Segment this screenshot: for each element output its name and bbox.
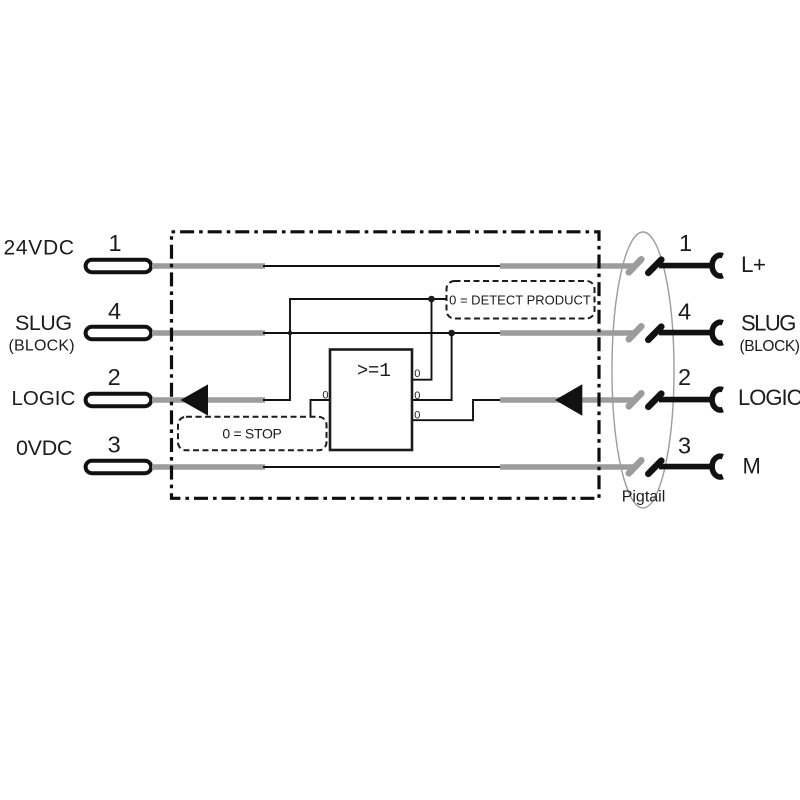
connector contact gray slash pin 1 [629, 259, 642, 272]
svg-text:L+: L+ [741, 252, 766, 277]
connector contact gray slash pin 3 [629, 460, 642, 473]
wire LOGIC left stub [263, 299, 447, 400]
gray wire 0VDC left [152, 464, 265, 470]
gray wire LOGIC left [152, 397, 265, 403]
annotation box 0 = STOP [178, 417, 327, 451]
junction dot detect node [428, 296, 435, 303]
connector contact black slash pin 3 [648, 461, 661, 474]
svg-text:>=1: >=1 [357, 360, 391, 382]
gray wire M right [500, 464, 634, 470]
black wire L+ [659, 263, 712, 269]
terminal pad pin 1 [86, 260, 152, 272]
svg-text:1: 1 [679, 230, 692, 256]
svg-text:LOGIC: LOGIC [12, 387, 76, 410]
svg-text:0: 0 [414, 368, 420, 380]
wire 0VDC row [263, 466, 501, 468]
svg-text:0 = DETECT PRODUCT: 0 = DETECT PRODUCT [449, 293, 591, 308]
wire 24VDC row [263, 265, 501, 267]
svg-text:0: 0 [414, 410, 420, 422]
connector contact black slash pin 4 [648, 327, 661, 340]
svg-text:M: M [743, 454, 761, 479]
svg-text:0 = STOP: 0 = STOP [222, 425, 281, 441]
svg-text:0VDC: 0VDC [16, 436, 72, 460]
svg-text:SLUG: SLUG [741, 311, 795, 336]
pigtail cable ellipse [612, 232, 674, 508]
connector contact black slash pin 1 [648, 260, 661, 273]
socket hook SLUG [712, 322, 723, 343]
connector contact gray slash pin 2 [629, 393, 642, 406]
wire detect branch to gate input A [412, 299, 432, 380]
svg-text:0: 0 [322, 389, 328, 401]
arrowhead LOGIC right [555, 384, 582, 416]
wire gate input C from LOGIC right [412, 400, 501, 420]
wire SLUG row [263, 332, 501, 334]
svg-text:Pigtail: Pigtail [622, 489, 666, 506]
gray wire SLUG left [152, 330, 265, 336]
black wire SLUG [659, 330, 712, 336]
wire gate input B [412, 333, 452, 400]
OR gate U1 [330, 350, 412, 451]
dash-dot device frame [172, 232, 600, 499]
annotation box 0 = DETECT PRODUCT [447, 281, 595, 319]
socket hook LOGIC [712, 389, 723, 410]
gray wire SLUG right [500, 330, 634, 336]
svg-text:1: 1 [108, 230, 121, 256]
gray wire 24VDC left [152, 263, 265, 269]
connector contact gray slash pin 4 [629, 326, 642, 339]
gray wire LOGIC right [500, 397, 634, 403]
socket hook M [712, 456, 723, 477]
svg-text:2: 2 [108, 364, 121, 390]
junction dot SLUG tap [288, 331, 293, 336]
connector contact black slash pin 2 [648, 394, 661, 407]
svg-text:0: 0 [414, 390, 420, 402]
svg-text:LOGIC: LOGIC [738, 385, 800, 410]
arrowhead LOGIC left [181, 384, 209, 415]
terminal pad pin 3 [86, 461, 152, 473]
wire gate output to stop box [311, 400, 331, 418]
svg-text:4: 4 [678, 299, 691, 325]
svg-text:SLUG: SLUG [15, 311, 72, 335]
socket hook L+ [712, 255, 723, 276]
terminal pad pin 4 [86, 327, 152, 339]
svg-text:(BLOCK): (BLOCK) [9, 338, 75, 355]
svg-text:2: 2 [678, 364, 691, 390]
svg-text:3: 3 [108, 432, 121, 458]
black wire M [659, 464, 712, 470]
terminal pad pin 2 [86, 394, 152, 406]
black wire LOGIC [659, 397, 712, 403]
svg-text:3: 3 [678, 433, 691, 459]
svg-text:(BLOCK): (BLOCK) [740, 338, 800, 355]
svg-text:24VDC: 24VDC [4, 237, 75, 260]
junction dot gate input B tap [448, 330, 455, 337]
svg-text:4: 4 [108, 298, 121, 324]
gray wire L+ right [500, 263, 634, 269]
